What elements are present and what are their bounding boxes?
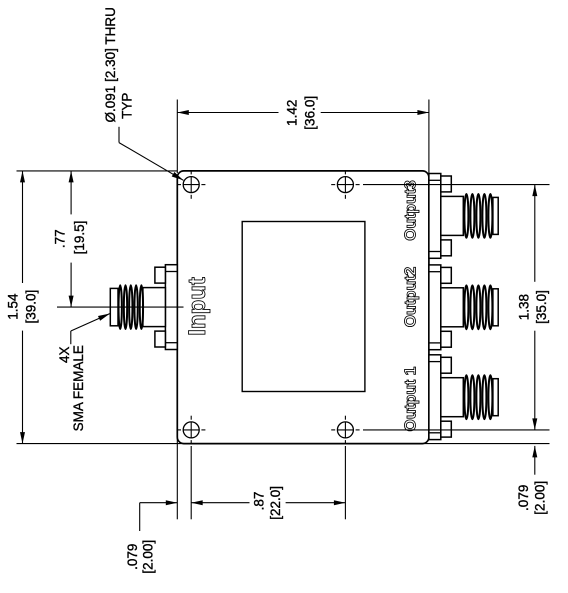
divider body outline	[177, 171, 429, 444]
svg-text:1.38: 1.38	[516, 294, 531, 320]
extension line right for 1.42	[428, 100, 430, 174]
svg-text:Output2: Output2	[402, 267, 419, 328]
dimension .079 [2.00] right	[516, 446, 547, 515]
dimension 1.38 [35.0]	[516, 185, 549, 430]
svg-text:Output3: Output3	[402, 180, 419, 241]
svg-text:.079: .079	[516, 485, 531, 511]
dimension .079 [2.00] bottom-left	[125, 500, 178, 573]
svg-text:[35.0]: [35.0]	[534, 290, 549, 324]
input SMA connector J1	[110, 265, 177, 350]
extension line below hole right	[344, 446, 346, 519]
svg-text:[19.5]: [19.5]	[72, 221, 87, 255]
dimension 1.54 [39.0]	[6, 171, 39, 444]
hole centerline extension top-right	[363, 184, 550, 186]
dimension 1.42 [36.0]	[177, 96, 429, 130]
svg-text:SMA FEMALE: SMA FEMALE	[71, 345, 86, 431]
dimension .87 [22.0]	[191, 486, 345, 520]
note 4X SMA FEMALE	[57, 345, 86, 431]
svg-text:.079: .079	[125, 544, 140, 570]
output3 SMA connector J4	[429, 174, 498, 259]
leader for SMA FEMALE note	[71, 314, 110, 345]
extension line below hole left	[190, 446, 192, 519]
dimension .77 [19.5]	[52, 171, 87, 307]
svg-text:.77: .77	[52, 229, 67, 248]
svg-text:1.42: 1.42	[285, 100, 300, 126]
output1 SMA connector J2	[429, 355, 498, 440]
extension line left for 1.42	[176, 100, 178, 174]
hole centerline extension bottom-right	[363, 429, 550, 431]
leader for hole diameter note	[119, 127, 183, 181]
input centerline	[57, 306, 184, 308]
svg-text:4X: 4X	[57, 347, 72, 364]
mounting hole top-left	[177, 170, 205, 198]
mounting hole top-right	[331, 170, 359, 198]
top edge extension line	[17, 170, 178, 172]
svg-text:Input: Input	[184, 277, 211, 336]
svg-text:[2.00]: [2.00]	[533, 481, 548, 515]
note dia .091 [2.30] THRU TYP	[103, 7, 135, 122]
label recess rectangle	[242, 222, 365, 392]
svg-text:TYP: TYP	[120, 93, 135, 119]
bottom edge extension line left	[17, 443, 187, 445]
svg-text:Output 1: Output 1	[403, 366, 420, 431]
svg-text:1.54: 1.54	[6, 293, 21, 320]
output2 SMA connector J3	[429, 265, 498, 350]
extension line below left edge	[176, 437, 178, 519]
svg-text:[2.00]: [2.00]	[141, 540, 156, 574]
svg-text:[36.0]: [36.0]	[302, 96, 317, 130]
svg-text:Ø.091 [2.30] THRU: Ø.091 [2.30] THRU	[103, 7, 118, 122]
svg-text:.87: .87	[252, 492, 267, 511]
svg-text:[22.0]: [22.0]	[268, 486, 283, 520]
mounting hole bottom-right	[331, 416, 359, 444]
bottom edge extension line right	[421, 443, 550, 445]
svg-text:[39.0]: [39.0]	[24, 290, 39, 324]
mounting hole bottom-left	[177, 416, 205, 444]
